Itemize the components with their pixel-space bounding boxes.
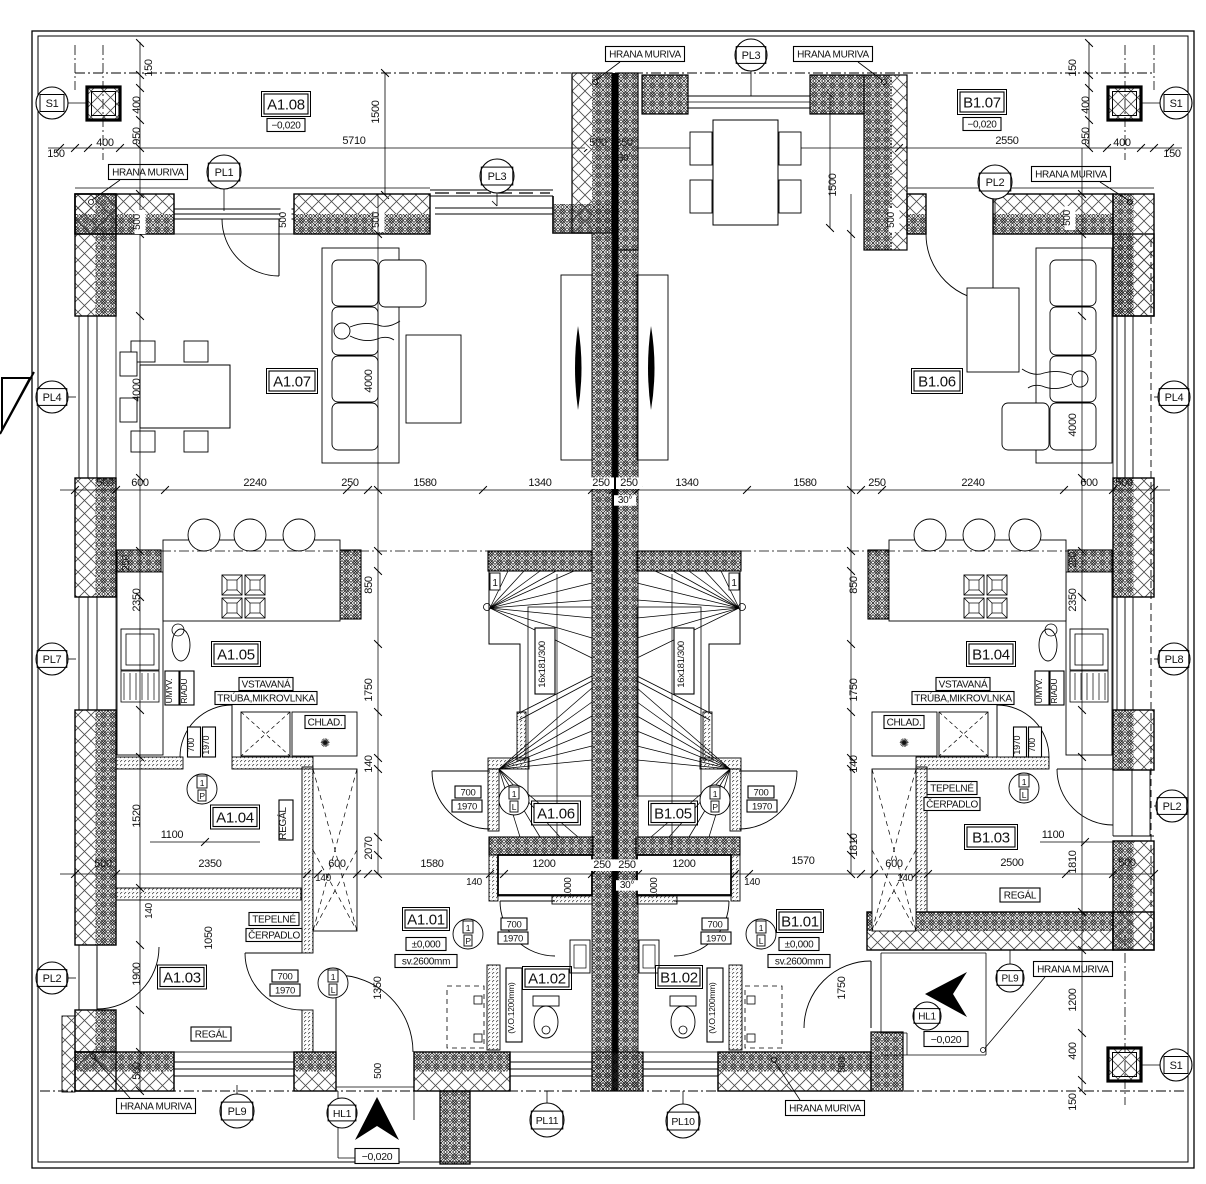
svg-text:500: 500	[131, 1062, 143, 1080]
svg-text:1750: 1750	[836, 976, 848, 999]
svg-text:950: 950	[1080, 127, 1092, 145]
label REGAL B1.03	[1000, 888, 1040, 902]
svg-text:−0,020: −0,020	[362, 1151, 393, 1163]
svg-text:500: 500	[132, 213, 143, 230]
A stair pier lower	[489, 855, 498, 901]
label PL10 bottom	[666, 1091, 700, 1138]
B kitchen open boundary dash	[741, 550, 1068, 552]
label PL1	[207, 155, 241, 211]
B stair se wall	[700, 758, 741, 769]
B hall bench	[745, 986, 782, 1048]
east wall segment y478	[1113, 478, 1134, 597]
svg-text:140: 140	[897, 873, 914, 884]
window PL7 west	[75, 597, 116, 710]
label TEPELNE B	[924, 782, 980, 811]
svg-text:500: 500	[278, 211, 289, 228]
svg-text:A1.06: A1.06	[537, 805, 575, 822]
A stair sw wall	[488, 758, 529, 769]
svg-text:1: 1	[492, 578, 498, 589]
west wall segment y194	[75, 194, 96, 316]
svg-text:L: L	[331, 985, 336, 995]
svg-text:B1.01: B1.01	[781, 913, 819, 930]
door circle B1.03	[1009, 773, 1039, 803]
label HRANA MURIVA top-center-left	[593, 47, 685, 85]
column S1 top-right	[1108, 87, 1141, 120]
svg-text:700: 700	[754, 787, 769, 798]
svg-text:850: 850	[363, 576, 375, 594]
axis dash-dot top terrace line y73	[75, 72, 1154, 74]
window PL10 south	[643, 1052, 718, 1091]
svg-text:A1.05: A1.05	[217, 646, 255, 663]
svg-text:16x181/300: 16x181/300	[537, 641, 548, 688]
south wall A segment x75	[75, 1052, 174, 1072]
door circle A1.04	[187, 774, 217, 804]
label HL1 level	[355, 1149, 399, 1164]
A pendant lamp 1	[188, 519, 220, 551]
svg-text:700: 700	[461, 787, 476, 798]
label TRUBA A	[215, 692, 317, 705]
B pendant lamp 3	[1009, 519, 1041, 551]
north wall A segment x294	[294, 194, 430, 214]
door circle B1.02	[746, 919, 776, 949]
label 700 A1.03 door	[270, 970, 300, 996]
north wall A segment x75	[75, 194, 174, 214]
dim text 30deg y490	[614, 495, 636, 506]
west wall segment y478	[75, 478, 96, 597]
svg-text:✺: ✺	[320, 736, 330, 750]
svg-text:±0,000: ±0,000	[412, 940, 441, 951]
svg-text:140: 140	[315, 873, 332, 884]
svg-text:PL9: PL9	[1002, 974, 1020, 985]
svg-text:150: 150	[47, 148, 65, 160]
axis S1 left vertical	[102, 45, 104, 160]
svg-text:REGÁL: REGÁL	[276, 807, 289, 840]
label PL2 left	[36, 962, 76, 994]
B1.03 south wall	[867, 912, 1113, 931]
svg-text:150: 150	[1163, 148, 1181, 160]
north-west corner overlay A	[75, 194, 116, 234]
dim text 500 left wall rot	[132, 210, 146, 234]
A pendant lamp 3	[283, 519, 315, 551]
axis left wall vertical dash-dot	[74, 45, 76, 90]
svg-text:ČERPADLO: ČERPADLO	[926, 798, 978, 811]
B porch dining table	[690, 120, 801, 225]
svg-text:30°: 30°	[618, 495, 633, 506]
svg-text:1100: 1100	[161, 829, 184, 841]
label A1.04	[211, 805, 260, 829]
entry arrow A	[355, 1097, 399, 1140]
A stair west boundary	[489, 571, 520, 712]
dim text 500 party top	[585, 137, 611, 149]
dim text 250 y490 party A	[588, 477, 614, 489]
B pendant lamp 1	[914, 519, 946, 551]
south-west exterior paving nub	[62, 1016, 75, 1092]
dim row low y874	[60, 870, 1158, 878]
B stair niche	[637, 855, 731, 895]
label PL8 right	[1154, 643, 1190, 675]
svg-text:PL9: PL9	[228, 1106, 247, 1118]
label PL3 A	[480, 159, 514, 206]
svg-text:1970: 1970	[706, 933, 726, 944]
entrance walkway lines A	[338, 1091, 414, 1158]
label HRANA MURIVA right-mid	[981, 962, 1113, 1053]
label 700 B1.02 door	[701, 918, 731, 944]
east wall segment y841	[1113, 841, 1134, 950]
south wall A segment x294	[294, 1052, 336, 1072]
dim text 250 y490 party B	[616, 477, 642, 489]
label A1.02	[523, 967, 572, 990]
terrace B inner edge	[907, 187, 1154, 189]
north wall B segment x907	[907, 194, 926, 214]
svg-text:S1: S1	[1170, 98, 1183, 110]
svg-text:1520: 1520	[131, 804, 143, 827]
dim row top y148	[48, 144, 1182, 152]
door PL2 west opening	[75, 945, 116, 1010]
svg-text:140: 140	[848, 755, 860, 773]
dim text 250 y874 party B	[614, 859, 640, 871]
A kitchen open boundary dash	[161, 550, 488, 552]
label B1.01	[777, 910, 824, 933]
svg-text:1500: 1500	[370, 100, 382, 123]
label PL7 left	[36, 643, 76, 675]
axis right wall vertical dash-dot	[1153, 45, 1155, 90]
north wall B segment x993	[993, 194, 1113, 214]
svg-text:850: 850	[848, 576, 860, 594]
dim text 500 right rot	[1062, 206, 1076, 230]
svg-text:1100: 1100	[1042, 829, 1065, 841]
sliding pocket A living	[561, 275, 592, 460]
svg-text:1340: 1340	[528, 477, 551, 489]
svg-text:2500: 2500	[1000, 857, 1023, 869]
label HRANA MURIVA bottom-left	[91, 1054, 196, 1114]
svg-text:500: 500	[886, 211, 897, 228]
svg-text:✺: ✺	[899, 736, 909, 750]
window PL2 east opening	[1113, 770, 1154, 836]
party wall top strip A	[572, 73, 612, 233]
label S1 circle bottom-right	[1141, 1049, 1192, 1081]
party wall black core	[613, 73, 618, 1091]
svg-text:140: 140	[744, 877, 761, 888]
label PL11 bottom	[530, 1091, 564, 1137]
B kitchen counters	[872, 540, 1112, 756]
partition A kitchen south west	[116, 757, 183, 769]
label 700 A kitchen door	[186, 727, 216, 757]
label HRANA MURIVA top-left	[89, 165, 188, 205]
svg-text:400: 400	[96, 137, 114, 149]
partition A1.03 east upper	[302, 767, 313, 953]
label B1.07 level	[963, 118, 1001, 131]
svg-text:A1.07: A1.07	[273, 373, 311, 390]
svg-text:P: P	[465, 936, 471, 946]
A stair pier upper	[488, 769, 499, 831]
svg-text:1050: 1050	[203, 926, 215, 949]
svg-text:P: P	[712, 802, 718, 812]
svg-text:1000: 1000	[649, 877, 660, 899]
dim chain A terrace depth 1500	[370, 69, 389, 199]
label 700 A1.02 door	[498, 918, 528, 944]
svg-text:150: 150	[143, 59, 155, 77]
svg-text:VSTAVANÁ: VSTAVANÁ	[939, 678, 988, 691]
dim chain top-right vertical	[1085, 39, 1093, 152]
axis dash-dot bottom line y1091	[40, 1090, 1186, 1092]
B stair pier lower	[731, 855, 740, 901]
svg-text:REGÁL: REGÁL	[195, 1028, 228, 1041]
svg-text:5710: 5710	[342, 135, 365, 147]
svg-text:600: 600	[328, 858, 346, 870]
A stair north wall	[488, 551, 592, 571]
B stair number 1	[729, 573, 739, 590]
svg-text:140: 140	[466, 877, 483, 888]
label S1 circle top-right	[1141, 87, 1192, 119]
svg-text:250: 250	[341, 477, 359, 489]
svg-text:16x181/300: 16x181/300	[676, 641, 687, 688]
svg-text:700: 700	[186, 738, 196, 752]
svg-text:−0,020: −0,020	[271, 121, 301, 132]
svg-text:150: 150	[1067, 1093, 1079, 1111]
B porch slab outline	[881, 953, 986, 1055]
dim text 500 top wall A3 rot	[371, 208, 385, 232]
A stair mid partition	[517, 712, 526, 760]
A stair sw door swing	[432, 771, 490, 829]
A hall bench	[447, 986, 484, 1048]
window-door PL1 north	[174, 194, 294, 234]
svg-text:P: P	[199, 791, 205, 801]
window PL8 east	[1113, 597, 1154, 710]
svg-text:sv.2600mm: sv.2600mm	[775, 957, 823, 968]
label A1.08 level	[267, 119, 305, 132]
A stair number 1	[490, 573, 500, 590]
canopy pier A	[440, 1091, 470, 1164]
B1.03 west wall	[916, 767, 927, 912]
svg-text:1750: 1750	[848, 678, 860, 701]
axis S1 bottom-right vertical	[1124, 935, 1126, 1105]
B east return wall	[871, 1032, 903, 1091]
svg-text:PL7: PL7	[43, 654, 62, 666]
dim 1100 A	[150, 829, 260, 846]
svg-text:400: 400	[131, 96, 143, 114]
svg-text:1: 1	[759, 923, 764, 933]
A1.03 door swing	[245, 953, 302, 1010]
A kitchen door swing	[180, 705, 232, 757]
svg-text:700: 700	[507, 919, 522, 930]
B WC fixtures	[639, 940, 696, 1038]
north marker left edge	[0, 372, 34, 434]
label B1.02	[656, 966, 703, 989]
label A1.06	[532, 801, 581, 825]
svg-text:PL2: PL2	[1163, 801, 1182, 813]
B porch north wall x642	[642, 75, 688, 114]
svg-text:1580: 1580	[793, 477, 816, 489]
door circle A1.03	[318, 968, 348, 998]
B kitchen stub wall right	[1068, 550, 1112, 572]
svg-text:1810: 1810	[1067, 850, 1079, 873]
B1.03 south wall corner	[1113, 912, 1154, 950]
B WC door swing	[674, 901, 729, 956]
svg-text:1970: 1970	[752, 801, 772, 812]
label VSTAVANA B	[936, 678, 990, 691]
svg-text:HL1: HL1	[333, 1108, 352, 1120]
column S1 bottom-right	[1108, 1048, 1141, 1081]
dim chain left x140	[136, 148, 144, 1095]
label HL1 right	[913, 1002, 941, 1030]
A kitchen counters	[117, 540, 357, 756]
svg-text:CHLAD.: CHLAD.	[308, 718, 343, 729]
svg-text:HRANA MURIVA: HRANA MURIVA	[789, 1104, 861, 1115]
svg-text:PL2: PL2	[986, 177, 1005, 189]
A dining table	[120, 341, 230, 452]
svg-text:1810: 1810	[848, 833, 860, 856]
label B1.05	[649, 801, 698, 825]
svg-text:HL1: HL1	[918, 1012, 936, 1023]
svg-text:1200: 1200	[672, 858, 695, 870]
dim text 30deg party top	[614, 153, 636, 164]
svg-text:L: L	[1022, 790, 1027, 800]
B stair east boundary	[709, 571, 740, 712]
label PL2 right	[1154, 790, 1188, 822]
A kitchen stub wall right	[340, 550, 361, 619]
dim text 250 party top	[611, 137, 637, 149]
svg-text:VSTAVANÁ: VSTAVANÁ	[242, 678, 291, 691]
label 700 A1.06 door	[452, 786, 482, 812]
svg-text:2350: 2350	[131, 588, 143, 611]
svg-text:UMYV.: UMYV.	[164, 679, 174, 704]
svg-text:2240: 2240	[961, 477, 984, 489]
svg-text:700: 700	[1027, 738, 1037, 752]
label PL4 left	[36, 381, 76, 413]
porch A corner outline	[553, 196, 613, 233]
svg-text:500: 500	[371, 211, 382, 228]
svg-text:PL3: PL3	[488, 171, 507, 183]
A stair south wall	[489, 837, 593, 855]
label TEPELNE A	[246, 913, 302, 942]
column S1 top-left	[87, 87, 120, 120]
dim text 250 y874 party A	[589, 859, 615, 871]
partition A1.03 east lower	[302, 1010, 313, 1052]
label CHLAD A	[305, 716, 345, 751]
B1.03 door swing	[1057, 769, 1113, 825]
A person figure	[334, 321, 400, 341]
A WC fixtures	[533, 940, 590, 1038]
B stair treads	[637, 571, 746, 850]
label A1.07	[267, 369, 318, 394]
label PL2 B top	[978, 165, 1012, 225]
west wall segment y710	[75, 710, 96, 945]
svg-text:250: 250	[620, 477, 638, 489]
B living sofa	[1002, 248, 1112, 463]
partition A1.04 south	[116, 888, 301, 900]
B person figure	[1022, 369, 1088, 389]
svg-text:S1: S1	[46, 98, 59, 110]
label A1.08	[262, 92, 311, 117]
svg-text:1: 1	[200, 778, 205, 788]
B pendant lamp 2	[963, 519, 995, 551]
svg-text:±0,000: ±0,000	[785, 940, 814, 951]
entry arrow B	[925, 972, 967, 1017]
axis S1 right vertical	[1124, 45, 1126, 160]
label B1.01 level	[779, 938, 819, 951]
svg-text:TRÚBA,MIKROVLNKA: TRÚBA,MIKROVLNKA	[217, 692, 315, 705]
svg-text:HRANA MURIVA: HRANA MURIVA	[112, 168, 184, 179]
east wall segment y710	[1113, 710, 1134, 770]
label UMYV B	[1034, 671, 1064, 705]
sliding panel B living	[648, 326, 655, 410]
label PL9 right	[996, 950, 1024, 992]
svg-text:2070: 2070	[363, 836, 375, 859]
svg-text:S1: S1	[1170, 1060, 1183, 1072]
party wall strip B side	[618, 250, 638, 1091]
B stair label 16x181/300	[674, 628, 694, 694]
B kitchen door swing	[997, 705, 1049, 757]
svg-text:500: 500	[373, 1062, 384, 1079]
east wall segment y234	[1113, 234, 1134, 316]
svg-text:1350: 1350	[372, 976, 384, 999]
svg-text:PL4: PL4	[1165, 392, 1184, 404]
window PL4 west	[75, 316, 116, 478]
svg-text:1580: 1580	[420, 858, 443, 870]
label TRUBA B	[912, 692, 1014, 705]
window PL11 south	[510, 1052, 592, 1091]
svg-text:L: L	[512, 802, 517, 812]
south-west corner overlay	[75, 1052, 116, 1091]
svg-text:1970: 1970	[275, 985, 295, 996]
svg-text:250: 250	[1068, 551, 1079, 568]
svg-text:B1.03: B1.03	[972, 829, 1010, 846]
svg-text:400: 400	[1113, 137, 1131, 149]
entrance threshold A	[336, 1052, 414, 1091]
svg-text:A1.02: A1.02	[528, 970, 566, 987]
label REGAL A1.03	[191, 1027, 231, 1041]
svg-text:HRANA MURIVA: HRANA MURIVA	[1035, 170, 1107, 181]
label 700 B1.05 door	[747, 786, 777, 812]
B porch north wall x810	[810, 75, 864, 114]
svg-text:250: 250	[121, 554, 132, 571]
svg-text:1: 1	[466, 923, 471, 933]
svg-text:PL4: PL4	[43, 392, 62, 404]
label A1.01 height	[395, 955, 457, 968]
dim chain center-right x851	[847, 194, 855, 878]
svg-text:250: 250	[592, 477, 610, 489]
label PL3 top	[735, 39, 767, 96]
dim chain top-left vertical	[136, 39, 144, 152]
south wall B segment party	[592, 1052, 643, 1091]
svg-text:−0,020: −0,020	[931, 1034, 962, 1046]
svg-text:PL3: PL3	[742, 50, 761, 62]
svg-text:A1.08: A1.08	[267, 96, 305, 113]
svg-text:150: 150	[1067, 59, 1079, 77]
dim chain right x1082	[1078, 148, 1086, 1095]
label A1.01 level	[406, 938, 446, 951]
B shaft dashed	[872, 769, 916, 931]
svg-text:140: 140	[144, 902, 155, 919]
label S1 circle top-left	[36, 87, 87, 119]
B stair mid partition	[703, 712, 712, 760]
sliding panel A living	[575, 326, 582, 410]
svg-text:A1.01: A1.01	[407, 911, 445, 928]
dim chain B porch depth 1500	[826, 91, 839, 232]
label B1.06	[912, 369, 963, 394]
svg-text:700: 700	[708, 919, 723, 930]
svg-text:−0,020: −0,020	[967, 120, 997, 131]
svg-text:4000: 4000	[1067, 413, 1079, 436]
svg-text:L: L	[759, 936, 764, 946]
svg-text:30°: 30°	[620, 880, 635, 891]
label PL4 right	[1154, 381, 1190, 413]
door circle A1.06	[499, 785, 529, 815]
svg-text:1970: 1970	[503, 933, 523, 944]
svg-text:PL10: PL10	[671, 1116, 695, 1128]
svg-text:REGÁL: REGÁL	[1004, 889, 1037, 902]
door PL2 east swing arc B1.06	[926, 234, 993, 301]
